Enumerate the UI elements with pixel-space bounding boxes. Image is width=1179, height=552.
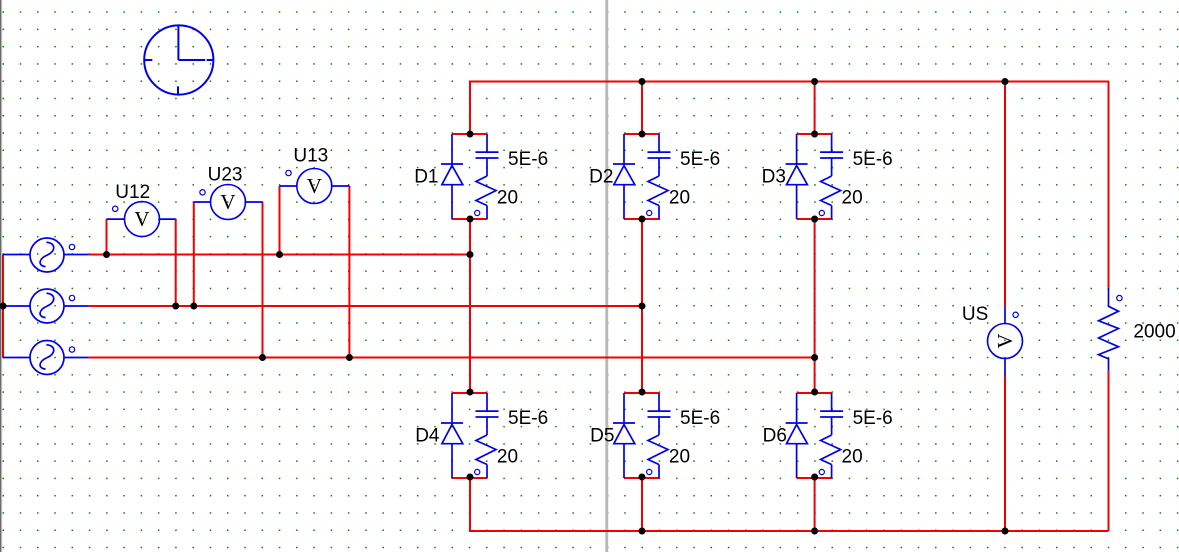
- node source common: [0, 303, 7, 310]
- AC source V3: [30, 341, 64, 375]
- AC3 leads: [3, 357, 30, 359]
- U12 right leg: [175, 219, 177, 306]
- leg3 top wire: [814, 82, 816, 135]
- node D5 top: [639, 389, 646, 396]
- svg-text:D1: D1: [414, 167, 438, 188]
- leg2 mid wire: [641, 219, 643, 392]
- U13 marker: [286, 170, 291, 175]
- node phaseA-U12: [103, 251, 110, 258]
- load marker: [1117, 295, 1122, 300]
- node D4 bottom: [467, 474, 474, 481]
- leg1 mid wire: [469, 219, 471, 392]
- node D6 top: [811, 389, 818, 396]
- diode module D4: [441, 393, 499, 478]
- voltmeter U12: [125, 202, 160, 237]
- svg-text:U12: U12: [115, 182, 150, 203]
- vertical gray pane divider: [605, 0, 608, 552]
- US top wire: [1004, 82, 1006, 307]
- leg3 bottom wire: [814, 477, 816, 531]
- node phaseA-U13: [276, 251, 283, 258]
- svg-text:D3: D3: [762, 167, 786, 188]
- svg-text:2000: 2000: [1133, 321, 1175, 342]
- AC source V2: [30, 289, 64, 323]
- svg-text:U23: U23: [208, 165, 243, 186]
- node D3 top: [811, 131, 818, 138]
- US marker: [1013, 312, 1018, 317]
- AC3 marker: [69, 347, 74, 352]
- node D1 bottom: [467, 216, 474, 223]
- node D2 top: [639, 131, 646, 138]
- diode module D1: [441, 134, 499, 219]
- svg-text:5E-6: 5E-6: [508, 408, 548, 429]
- polarity dot markers: [69, 170, 1122, 352]
- source common vertical: [2, 255, 4, 358]
- node phaseB-U12: [172, 303, 179, 310]
- node D3 bottom: [811, 216, 818, 223]
- svg-text:V: V: [993, 333, 1017, 348]
- svg-text:D2: D2: [589, 167, 613, 188]
- node phaseC-leg3: [811, 354, 818, 361]
- svg-text:20: 20: [669, 187, 690, 208]
- phase B bus: [89, 305, 642, 307]
- svg-text:20: 20: [497, 187, 518, 208]
- voltmeter US (vertical): [988, 324, 1023, 359]
- window left edge: [0, 0, 1, 552]
- U13 right leg: [348, 186, 350, 358]
- U23 leads: [194, 201, 211, 203]
- U23 marker: [200, 190, 205, 195]
- AC1 marker: [69, 244, 74, 249]
- load bottom wire: [1108, 371, 1110, 531]
- node phaseB-U23: [190, 303, 197, 310]
- US bottom wire: [1004, 376, 1006, 532]
- U12 leads: [107, 218, 125, 220]
- diode module D2: [613, 134, 671, 219]
- node D2 bottom: [639, 216, 646, 223]
- svg-text:U13: U13: [293, 146, 328, 167]
- bottom DC- rail: [470, 477, 1109, 531]
- node D5 bottom: [639, 474, 646, 481]
- voltmeter U13: [297, 169, 332, 204]
- clock element: [144, 25, 213, 94]
- svg-text:5E-6: 5E-6: [508, 149, 548, 170]
- U12 left leg: [106, 219, 108, 254]
- svg-text:20: 20: [669, 446, 690, 467]
- US leads: [1004, 306, 1006, 323]
- node bottom rail D6: [811, 528, 818, 535]
- AC1 leads: [3, 254, 30, 256]
- load resistor: [1099, 287, 1119, 370]
- svg-text:20: 20: [497, 446, 518, 467]
- svg-text:5E-6: 5E-6: [853, 408, 893, 429]
- diode module D6: [786, 393, 844, 478]
- node rail-US: [1002, 78, 1009, 85]
- node D6 bottom: [811, 474, 818, 481]
- svg-text:D4: D4: [415, 426, 440, 447]
- node rail-D3: [811, 78, 818, 85]
- AC2 leads: [3, 305, 30, 307]
- svg-text:5E-6: 5E-6: [853, 149, 893, 170]
- U13 leads: [280, 185, 297, 187]
- svg-text:5E-6: 5E-6: [680, 408, 720, 429]
- node bottom rail D5: [639, 528, 646, 535]
- svg-text:D5: D5: [590, 426, 614, 447]
- U13 left leg: [279, 186, 281, 255]
- node phaseA-leg1: [467, 251, 474, 258]
- U23 right leg: [262, 202, 264, 358]
- svg-text:5E-6: 5E-6: [680, 149, 720, 170]
- node rail-D2: [639, 78, 646, 85]
- node phaseB-leg2: [639, 303, 646, 310]
- load top wire: [1108, 82, 1110, 288]
- node phaseC-U13: [346, 354, 353, 361]
- voltmeter U23: [211, 185, 246, 220]
- leg2 bottom wire: [641, 477, 643, 531]
- node phaseC-U23: [259, 354, 266, 361]
- phase C bus: [89, 357, 815, 359]
- svg-text:20: 20: [842, 187, 863, 208]
- svg-text:20: 20: [842, 446, 863, 467]
- AC2 marker: [69, 295, 74, 300]
- svg-text:D6: D6: [763, 426, 787, 447]
- node D4 top: [467, 389, 474, 396]
- svg-text:US: US: [962, 304, 988, 325]
- phase A bus: [89, 254, 470, 256]
- diode module D3: [786, 134, 844, 219]
- leg3 mid wire: [814, 219, 816, 392]
- U12 marker: [113, 206, 118, 211]
- diode module D5: [613, 393, 671, 478]
- node bottom rail US: [1002, 528, 1009, 535]
- U23 left leg: [193, 202, 195, 306]
- AC source V1: [30, 238, 64, 272]
- node D1 top: [467, 131, 474, 138]
- top DC+ rail: [470, 82, 1109, 135]
- leg2 top wire: [641, 82, 643, 135]
